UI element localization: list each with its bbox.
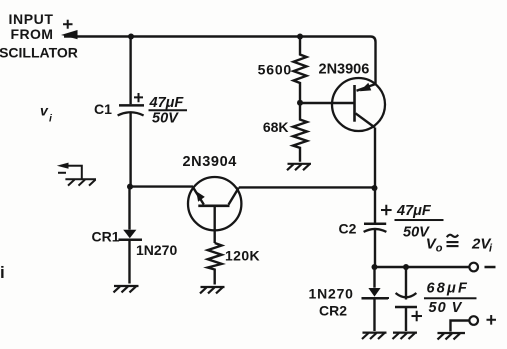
transistor Q2 2N3906 — [332, 78, 385, 131]
plus sign at input — [63, 20, 73, 29]
approx-equals symbol — [446, 235, 458, 246]
label Vo = 2Vi — [426, 236, 443, 255]
plus sign 68uF — [411, 311, 422, 322]
svg-text:50 V: 50 V — [428, 300, 462, 316]
ground under 68K — [287, 164, 311, 170]
wire output to minus terminal — [374, 266, 469, 268]
ground under plus terminal — [437, 333, 465, 339]
terminal circle plus output — [469, 316, 478, 325]
value 68uF/50V — [426, 281, 469, 317]
svg-text:CR1: CR1 — [91, 228, 119, 244]
diode CR1 — [128, 187, 130, 230]
capacitor 68uF lead top — [405, 267, 407, 300]
svg-text:v: v — [40, 102, 49, 118]
diode CR2 — [373, 267, 375, 288]
capacitor 68uF plates — [396, 293, 417, 297]
svg-text:47μF: 47μF — [396, 203, 432, 219]
input arrowhead — [61, 30, 78, 39]
svg-text:1N270: 1N270 — [308, 286, 353, 302]
svg-text:o: o — [436, 243, 443, 255]
svg-text:50V: 50V — [152, 110, 179, 126]
svg-text:INPUT: INPUT — [9, 11, 54, 27]
plus sign C1 — [134, 93, 143, 102]
svg-text:FROM: FROM — [11, 26, 54, 42]
wire middle-right (Q1 to C2 node) — [239, 186, 374, 188]
resistor 120K — [208, 243, 222, 285]
svg-text:68μF: 68μF — [426, 281, 469, 297]
ground under CR1 — [113, 286, 138, 292]
svg-text:2N3904: 2N3904 — [183, 154, 237, 170]
terminal circle minus output — [469, 263, 478, 272]
capacitor C2 plates — [364, 223, 386, 226]
minus sign at output — [484, 266, 495, 269]
svg-text:120K: 120K — [225, 247, 260, 263]
input ground symbol with arrow (left of CR1) — [57, 163, 96, 186]
svg-text:i: i — [49, 112, 53, 124]
svg-text:47μF: 47μF — [149, 95, 185, 111]
capacitor 68uF lead bottom — [405, 307, 407, 331]
node: junction dot 68uF top — [403, 264, 409, 270]
node: junction dot at 5600 top — [297, 34, 303, 40]
transistor Q1 2N3904 — [188, 177, 241, 243]
svg-text:CR2: CR2 — [319, 303, 347, 319]
node: junction dot 5600/68K/base — [297, 100, 303, 106]
resistor 5600 — [294, 37, 307, 103]
plus sign C2 — [381, 205, 392, 215]
capacitor C1 lead top — [129, 37, 131, 104]
value 47uF/50V for C1 — [149, 95, 185, 127]
svg-text:5600: 5600 — [258, 62, 292, 78]
ground under 120K — [200, 287, 225, 293]
node: junction dot C2 bottom / CR2 — [371, 264, 377, 270]
wire Q2 base — [300, 102, 355, 104]
node: junction dot at C1 top — [128, 33, 134, 39]
svg-text:i: i — [489, 243, 493, 255]
svg-text:i: i — [0, 263, 5, 282]
capacitor C1 lead bottom — [129, 113, 131, 186]
wire top horizontal from input arrow to top-right corner — [64, 36, 376, 84]
svg-text:OSCILLATOR: OSCILLATOR — [0, 44, 78, 60]
svg-text:2N3906: 2N3906 — [319, 62, 370, 78]
svg-text:C2: C2 — [338, 221, 356, 237]
capacitor C2 lead bottom — [374, 230, 376, 268]
text INPUT FROM OSCILLATOR — [0, 11, 78, 60]
capacitor C2 lead top — [374, 188, 376, 223]
label vi — [40, 102, 53, 124]
plus sign at bottom output — [486, 315, 496, 325]
wire middle-left (C1 node to Q1) — [130, 185, 193, 187]
value 47uF/50V for C2 — [396, 203, 432, 241]
polarity dash left of 68uF cap — [383, 297, 389, 299]
node: junction dot at C1 bottom / CR1 — [127, 184, 133, 190]
resistor 68K — [293, 103, 307, 162]
capacitor C1 plates — [119, 104, 144, 107]
node: junction dot collector/C2 — [371, 185, 377, 191]
ground under CR2 — [362, 333, 387, 339]
wire bottom-right terminal plus — [450, 321, 469, 332]
svg-text:68K: 68K — [263, 119, 289, 135]
ground under 68uF — [392, 333, 417, 339]
svg-text:1N270: 1N270 — [136, 242, 177, 258]
svg-text:C1: C1 — [94, 101, 112, 117]
wire Q2 collector down — [374, 128, 376, 189]
